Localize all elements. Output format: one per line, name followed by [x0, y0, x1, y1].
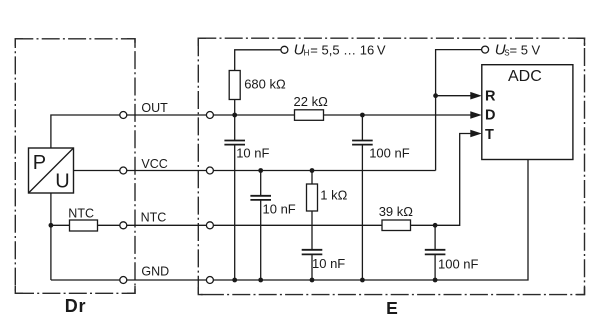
svg-text:NTC: NTC: [141, 210, 167, 224]
resistor NTC: [70, 220, 98, 231]
svg-text:1 kΩ: 1 kΩ: [320, 188, 347, 203]
wire NTC link Dr to E: [123, 224, 210, 226]
terminal US: [482, 46, 489, 53]
wire US supply feed: [436, 50, 486, 171]
arrow into T: [470, 130, 482, 138]
capacitor 100 nF (D line): [352, 115, 373, 280]
node D-line junction: [360, 113, 365, 118]
resistor 1 kOhm: [307, 171, 318, 250]
wire OUT link Dr to E: [123, 114, 210, 116]
terminal NTC Dr: [120, 222, 127, 229]
svg-text:E: E: [386, 298, 398, 318]
wire sensor bottom vertical to GND: [50, 193, 52, 280]
wire 22k to ADC D input: [324, 114, 473, 116]
svg-text:680 kΩ: 680 kΩ: [244, 77, 286, 92]
node GND 10nF-1 junction: [232, 278, 237, 283]
svg-text:39 kΩ: 39 kΩ: [379, 204, 414, 219]
wire UH supply rail: [235, 50, 285, 71]
svg-text:GND: GND: [141, 265, 169, 279]
terminal OUT Dr: [120, 112, 127, 119]
node GND 100nF-2 junction: [433, 278, 438, 283]
wire NTC inside E to 39k: [210, 224, 382, 226]
capacitor 100 nF (T filter): [425, 225, 446, 280]
capacitor 10 nF (OUT filter): [224, 115, 245, 280]
enclosure Dr (sensor) dash-dot boundary: [15, 39, 135, 293]
svg-text:D: D: [485, 108, 495, 124]
svg-text:22 kΩ: 22 kΩ: [294, 94, 329, 109]
node GND 10nF-3 junction: [310, 278, 315, 283]
svg-text:100 nF: 100 nF: [438, 256, 479, 271]
arrow into D: [470, 111, 482, 119]
node VCC 1k junction: [310, 168, 315, 173]
resistor 39 kOhm: [382, 220, 411, 231]
svg-text:VCC: VCC: [141, 157, 167, 171]
wire 39k to T node: [411, 134, 473, 226]
wire NTC node to resistor: [51, 224, 70, 226]
wire 680k to OUT node: [234, 100, 236, 116]
terminal GND Dr: [120, 277, 127, 284]
svg-text:Dr: Dr: [65, 296, 87, 316]
svg-text:NTC: NTC: [68, 206, 94, 220]
svg-text:100 nF: 100 nF: [369, 145, 410, 160]
wire VCC sensor to supply node: [74, 170, 436, 172]
terminal VCC E: [206, 167, 213, 174]
node GND 10nF-2 junction: [258, 278, 263, 283]
svg-text:= 5 V: = 5 V: [510, 42, 541, 57]
wire R input from 5V node: [436, 95, 472, 97]
wire NTC resistor to terminal: [98, 224, 124, 226]
wire sensor output to OUT terminal: [51, 115, 123, 148]
node NTC 100nF junction: [433, 223, 438, 228]
capacitor 10 nF (lower): [302, 250, 323, 280]
arrow into R: [470, 92, 482, 100]
enclosure E corner ticks: [198, 38, 584, 294]
sensor element P/U: [29, 148, 74, 193]
svg-text:= 5,5 … 16 V: = 5,5 … 16 V: [310, 42, 386, 57]
svg-text:10 nF: 10 nF: [312, 256, 345, 271]
terminal UH: [281, 46, 288, 53]
node VCC 10nF junction: [258, 168, 263, 173]
svg-text:U: U: [55, 170, 69, 192]
terminal OUT E: [206, 112, 213, 119]
terminal GND E: [206, 277, 213, 284]
terminal VCC Dr: [120, 167, 127, 174]
svg-text:H: H: [304, 49, 310, 58]
terminal NTC E: [206, 222, 213, 229]
svg-text:P: P: [33, 152, 46, 174]
node OUT-680k junction: [232, 113, 237, 118]
enclosure Dr corner ticks: [15, 39, 135, 293]
node GND 100nF-1 junction: [360, 278, 365, 283]
svg-text:R: R: [485, 88, 496, 104]
resistor 22 kOhm: [295, 110, 324, 121]
svg-text:T: T: [485, 127, 494, 143]
capacitor 10 nF (VCC filter): [250, 171, 271, 281]
node NTC left junction: [49, 223, 54, 228]
node R input junction: [433, 93, 438, 98]
svg-text:10 nF: 10 nF: [263, 201, 296, 216]
wire GND line: [51, 160, 528, 281]
wire OUT inside E to 22k: [210, 114, 295, 116]
svg-text:ADC: ADC: [508, 68, 542, 85]
enclosure E (ECU) dash-dot boundary: [198, 38, 584, 294]
svg-text:10 nF: 10 nF: [236, 145, 269, 160]
svg-text:OUT: OUT: [141, 101, 168, 115]
resistor 680 kOhm: [229, 71, 240, 100]
IC ADC: [482, 65, 573, 160]
